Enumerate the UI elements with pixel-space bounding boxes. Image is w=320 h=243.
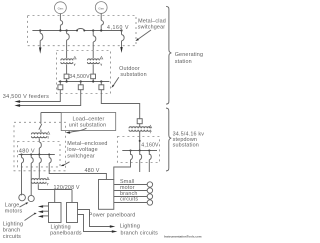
svg-text:34,500V: 34,500V (69, 74, 90, 80)
svg-text:Metal–enclosed: Metal–enclosed (67, 141, 107, 147)
svg-text:Load–center: Load–center (73, 116, 105, 122)
svg-text:34,500 V feeders: 34,500 V feeders (3, 94, 49, 100)
svg-text:branch: branch (3, 228, 21, 234)
svg-text:Gen: Gen (58, 7, 64, 11)
svg-text:Generating: Generating (175, 52, 203, 58)
svg-text:480 V: 480 V (85, 168, 100, 174)
svg-text:switchgear: switchgear (138, 25, 166, 31)
svg-text:substation: substation (173, 143, 199, 149)
svg-text:4,160 V: 4,160 V (107, 25, 129, 31)
svg-text:InstrumentationTools.com: InstrumentationTools.com (164, 234, 202, 238)
svg-text:motors: motors (5, 209, 23, 215)
svg-text:480 V: 480 V (19, 148, 35, 154)
svg-text:panelboards: panelboards (50, 230, 82, 236)
svg-text:circuits: circuits (120, 197, 138, 203)
svg-text:unit substation: unit substation (69, 123, 106, 129)
svg-text:4,160V: 4,160V (141, 142, 159, 148)
svg-text:120/208 V: 120/208 V (54, 185, 80, 191)
svg-text:branch circuits: branch circuits (121, 231, 159, 237)
svg-text:circuits: circuits (3, 234, 21, 240)
svg-text:switchgear: switchgear (67, 153, 95, 159)
svg-text:station: station (175, 59, 192, 65)
svg-text:Power panelboard: Power panelboard (89, 213, 136, 219)
svg-text:Lighting: Lighting (120, 224, 140, 230)
svg-text:Gen: Gen (98, 6, 104, 10)
svg-text:Metal–clad: Metal–clad (138, 19, 166, 25)
svg-text:substation: substation (120, 72, 146, 78)
svg-text:low–voltage: low–voltage (67, 147, 97, 153)
